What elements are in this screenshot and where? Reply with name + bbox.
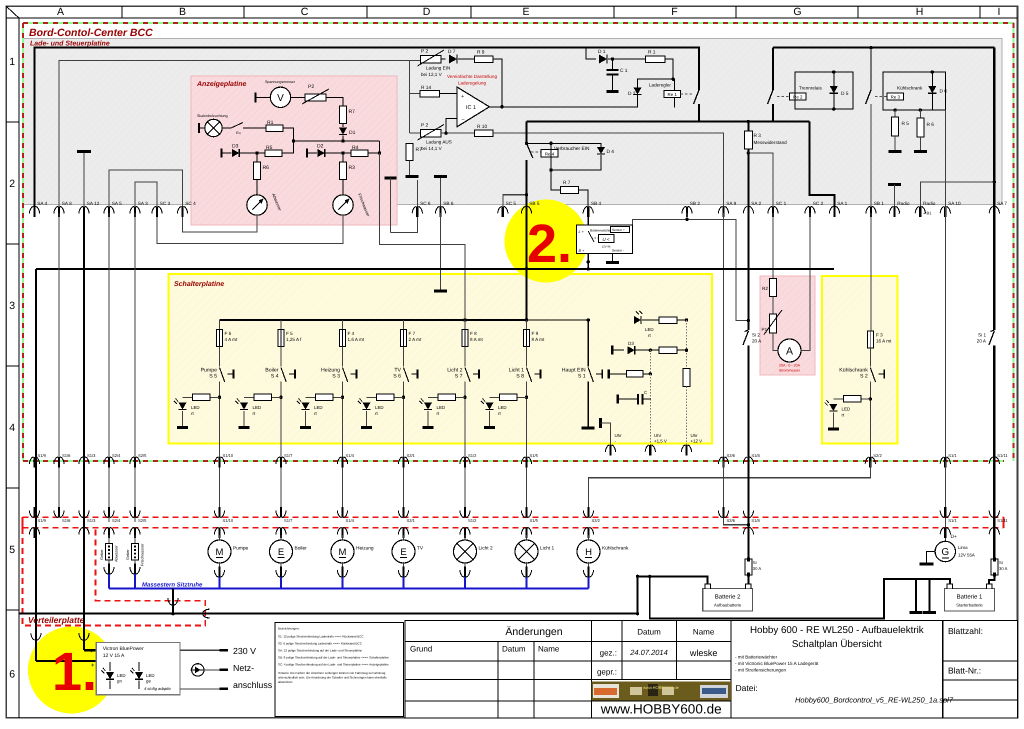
svg-text:D2: D2 [317, 144, 324, 150]
wire Anzeige feed to switch bus [380, 153, 466, 320]
svg-text:1,25 A f: 1,25 A f [286, 337, 302, 342]
wire battery2 minus link [638, 576, 708, 613]
wire bar to SC6 connector [413, 177, 415, 179]
load Boiler [280, 535, 282, 541]
resistor R3 Anzeige vertical [342, 153, 344, 162]
load TV [403, 535, 405, 541]
wire D1 to C1 node [608, 58, 645, 60]
wire Kuehlschrank column [870, 213, 872, 331]
svg-text:4 A mt: 4 A mt [225, 337, 238, 342]
svg-text:+12 V: +12 V [691, 439, 703, 444]
connector below load Licht 1 [526, 562, 528, 570]
svg-text:SB 5: SB 5 [529, 201, 540, 206]
svg-text:ge: ge [146, 679, 151, 684]
svg-text:S 7: S 7 [455, 374, 463, 380]
resistor R5 Anzeige [265, 150, 282, 157]
connector SA 5 at x=109 [108, 207, 110, 218]
svg-text:SA 12: SA 12 [87, 201, 100, 206]
wire thick SB5 column row2 [525, 213, 527, 269]
wire Victron minus lead [84, 649, 96, 651]
wire D2 to R4 [326, 152, 351, 154]
connector S1/11 at green boundary [993, 457, 995, 468]
fuse F 9 8 A mt [526, 320, 528, 330]
op-amp output wire [489, 106, 637, 108]
svg-text:Heizung: Heizung [356, 546, 374, 552]
LED indicator branch TV [367, 396, 404, 398]
battery 1 box [945, 588, 995, 611]
svg-text:S1/4: S1/4 [346, 453, 355, 458]
connector SA 12 at x=84 [83, 207, 85, 218]
svg-text:Re 1: Re 1 [668, 92, 678, 97]
wire Haupt EIN column [587, 320, 589, 367]
pink Anzeigeplatine panel [191, 76, 397, 225]
svg-text:S1/6: S1/6 [62, 518, 71, 523]
svg-text:S1/10: S1/10 [223, 453, 234, 458]
wire R7 to SB4 [579, 190, 589, 213]
svg-text:LED: LED [146, 673, 155, 678]
connector S1/1 at green boundary [944, 457, 946, 468]
svg-text:2.: 2. [527, 214, 572, 274]
switch Kuehlschrank relay [870, 48, 872, 90]
fuse F 7 2 A mt [403, 320, 405, 330]
potentiometer P2 Ladung AUS [409, 126, 411, 133]
connector S1/9 Victron feed [35, 630, 37, 641]
wire R4 to right node [368, 152, 380, 154]
svg-text:Frischwasser: Frischwasser [141, 543, 145, 566]
connector S1/11 at Verteilerplatte corridor [993, 507, 995, 518]
resistor R2 Strommesser [772, 278, 774, 280]
svg-text:Lade- und Steuerplatine: Lade- und Steuerplatine [30, 40, 110, 48]
svg-text:A: A [786, 345, 793, 357]
svg-text:Licht 2: Licht 2 [479, 546, 493, 552]
blue ground stub Licht 1 [526, 577, 528, 588]
svg-text:Abwasser: Abwasser [115, 545, 119, 562]
svg-text:bei 12,1 V: bei 12,1 V [421, 72, 443, 77]
connector SA 1 at x=834.5 [833, 207, 835, 218]
svg-text:S1/3: S1/3 [87, 453, 96, 458]
svg-text:D3: D3 [628, 341, 634, 346]
connector S1/8 at green boundary [747, 457, 749, 468]
blue ground stub Pumpe [219, 577, 221, 588]
svg-text:R 10: R 10 [477, 124, 487, 130]
load Kühlschrank [588, 535, 590, 541]
relay coil box Re 1 [664, 90, 681, 97]
wire P2 to R7 column [326, 97, 343, 106]
red dashed Verteilerplatte lower enclosure [23, 528, 206, 626]
yellow Kuehlschrank switch panel [822, 276, 898, 444]
svg-text:- mit Batteriewächter: - mit Batteriewächter [735, 655, 778, 660]
svg-text:Grund: Grund [410, 645, 432, 654]
diode D3 Anzeige row [220, 149, 222, 158]
connector Radio at x=920.3 [919, 207, 921, 218]
svg-text:1.: 1. [52, 642, 97, 702]
wire R1 down to Laderegler [665, 59, 673, 79]
wire switch to R1 [248, 127, 266, 129]
svg-text:S2: 6 polige Steckverbindung: S2: 6 polige Steckverbindung Ladestrafo … [278, 642, 363, 646]
wire D1 to node row [342, 136, 344, 142]
svg-text:12V 55A: 12V 55A [958, 553, 975, 558]
Laderegler relay rectangle [638, 79, 675, 107]
connector SB 4 at x=588.2 [587, 207, 589, 218]
wire Victron plus lead [36, 660, 96, 662]
connector S1/10 at green boundary [218, 457, 220, 468]
circuit breaker Si 1 20 A [989, 331, 994, 345]
connector SA 4 at x=34.5 [33, 207, 35, 218]
connector SA 2 at x=748.4 [747, 207, 749, 218]
svg-text:Uhr: Uhr [654, 433, 662, 438]
svg-text:LED: LED [253, 405, 262, 410]
svg-text:Kühlschrank: Kühlschrank [602, 546, 629, 552]
relay coil box Re 2 [790, 93, 807, 100]
wire S2/2 column below box [869, 444, 871, 478]
svg-text:Batteriewächter: Batteriewächter [590, 229, 613, 233]
wire SB6 column to bar in row2 [440, 213, 442, 290]
svg-text:D 2: D 2 [628, 91, 636, 97]
fuse F3 16 A mt [867, 331, 873, 348]
generator G Lima [944, 540, 946, 543]
LED indicator branch Licht 2 [428, 396, 465, 398]
svg-text:Lima: Lima [958, 545, 968, 550]
svg-text:S2/4: S2/4 [112, 518, 121, 523]
connector Radio at x=894.5 [893, 207, 895, 218]
svg-text:R4: R4 [352, 145, 359, 151]
svg-text:4 stufig adaptiv: 4 stufig adaptiv [144, 686, 172, 691]
svg-text:C: C [644, 390, 647, 395]
svg-text:LED: LED [191, 405, 200, 410]
wire SA10 column down to S1/1 [944, 110, 946, 213]
svg-text:SC 3: SC 3 [160, 201, 171, 206]
svg-text:SA 4: SA 4 [37, 201, 47, 206]
svg-text:- mit Streifensicherungen: - mit Streifensicherungen [735, 668, 787, 673]
wire thick SB5 lower [525, 195, 527, 213]
wire SC4 to Abwasser meter [183, 213, 258, 232]
yellow Schalterplatine panel [169, 274, 713, 444]
wire thick top right bus [773, 46, 994, 48]
svg-text:IC 1: IC 1 [466, 105, 476, 111]
connector below load Heizung [342, 562, 344, 570]
terminal bar Uhr minus [599, 418, 602, 428]
resistor R1 [266, 125, 283, 132]
wire TV column to connector row [403, 444, 405, 515]
potentiometer P2 Ladung EIN [421, 55, 442, 63]
wire D3 to R5 [240, 152, 265, 154]
wire S2/6 to S1/8 merge lower [724, 461, 749, 525]
svg-text:P 2: P 2 [421, 123, 428, 129]
wire R6 to Abwasser meter [256, 180, 258, 196]
diode D2 Anzeige row [306, 149, 308, 158]
svg-text:LED: LED [437, 405, 446, 410]
wire R14 to op-amp plus [440, 93, 458, 95]
Batteriewaechter box [576, 225, 632, 254]
wire Licht 2 column to connector row [464, 444, 466, 515]
blue ground stub TV [403, 577, 405, 588]
wire S2/5 column [134, 213, 136, 522]
connector S2/5 at green boundary [134, 457, 136, 468]
switch Haupt EIN [588, 368, 593, 383]
svg-text:M: M [216, 547, 224, 558]
wire R9 to output drop [493, 59, 502, 107]
wire Haupt EIN to ground [587, 382, 589, 428]
dashed link Re4 [531, 151, 541, 153]
svg-text:Uhr: Uhr [691, 433, 699, 438]
svg-text:S1/8: S1/8 [751, 518, 760, 523]
wire SA9/S2-6 column row2-5 [723, 213, 725, 514]
svg-text:SC 4: SC 4 [185, 201, 196, 206]
svg-text:D1: D1 [349, 130, 356, 136]
Geber Abwasser sensor [108, 535, 110, 543]
svg-text:20 A: 20 A [977, 339, 987, 344]
resistor R1 [645, 56, 665, 63]
load Licht 2 [464, 535, 466, 541]
blue stub Geber Abwasser [108, 574, 110, 588]
relay coil box Re 3 [887, 93, 904, 100]
connector SA 10 at x=945.3 [944, 207, 946, 218]
svg-text:S 2: S 2 [860, 374, 868, 380]
crossing hop at Verteilerplatte dashed edge [203, 609, 210, 618]
connector S1/4 at green boundary [341, 457, 343, 468]
svg-text:Si 2: Si 2 [752, 333, 760, 338]
svg-text:F 9: F 9 [532, 331, 539, 336]
svg-text:SB: 8 polige Steckverbindung: SB: 8 polige Steckverbindung auf der Lad… [278, 656, 389, 660]
svg-text:+: + [461, 94, 464, 100]
svg-text:D+: D+ [951, 534, 957, 540]
svg-text:E: E [400, 547, 406, 558]
svg-text:S1/5: S1/5 [530, 453, 539, 458]
svg-text:30 A: 30 A [999, 566, 1008, 571]
resistor R5 pullup [893, 108, 896, 111]
connector S1/8 at Verteilerplatte corridor [747, 507, 749, 518]
svg-text:Sensor -: Sensor - [612, 249, 624, 253]
wire R2 to P1 [772, 297, 774, 315]
switch Skalenbeleuchtung [231, 123, 243, 129]
svg-text:LED: LED [314, 405, 323, 410]
connector S1/1 at Verteilerplatte corridor [944, 507, 946, 518]
svg-text:SA 3: SA 3 [138, 201, 148, 206]
wire R5 right to mid node [282, 141, 294, 153]
wire R3 down to SA2 [747, 149, 749, 213]
svg-text:4: 4 [9, 422, 15, 434]
svg-text:Kühlschrank: Kühlschrank [897, 86, 923, 91]
diode D2 Laderegler [634, 88, 642, 95]
svg-text:S2/4: S2/4 [112, 453, 121, 458]
load Pumpe [219, 535, 221, 541]
LED indicator branch Pumpe [183, 396, 220, 398]
connector S2/4 at green boundary [108, 457, 110, 468]
ground bar chassis 2 [929, 579, 931, 612]
capacitor C Haupt [617, 395, 619, 404]
dashed link Re1 to switch [681, 93, 694, 95]
svg-text:SB 1: SB 1 [874, 201, 885, 206]
svg-text:Datei:: Datei: [736, 683, 758, 693]
svg-text:S1/3: S1/3 [87, 518, 96, 523]
svg-text:Spannungsmesser: Spannungsmesser [265, 80, 296, 84]
fuse F 6 4 A mt [219, 320, 221, 330]
svg-text:F 5: F 5 [286, 331, 293, 336]
svg-text:Licht 1: Licht 1 [540, 546, 554, 552]
svg-text:SB 2: SB 2 [690, 201, 701, 206]
svg-text:Massestern Sitztruhe: Massestern Sitztruhe [142, 582, 203, 589]
svg-text:unterschiedlich sein. Die Anor: unterschiedlich sein. Die Anordnung der … [278, 676, 387, 680]
connector S1/3 at green boundary [83, 457, 85, 468]
resistor R4 [351, 150, 368, 157]
fuse F 8 8 A mt [464, 320, 466, 330]
svg-text:F 6: F 6 [225, 331, 232, 336]
svg-text:24.07.2014: 24.07.2014 [629, 648, 668, 657]
connector S2/2 at green boundary [869, 457, 871, 468]
svg-text:Messwiderstand: Messwiderstand [754, 140, 788, 145]
svg-text:Ein: Ein [236, 131, 241, 135]
wire P1 to ammeter [773, 333, 778, 351]
wire SC6 link [391, 213, 418, 233]
ground bar chassis 1 [915, 579, 917, 612]
svg-text:−: − [462, 117, 465, 123]
wire R3 branch to SC1 [748, 153, 773, 213]
wire rail left op-amp area [410, 61, 421, 127]
svg-text:SA 7: SA 7 [997, 201, 1007, 206]
svg-text:Si: Si [999, 560, 1003, 565]
svg-text:Sensor +: Sensor + [612, 228, 625, 232]
svg-text:S2/1: S2/1 [407, 518, 416, 523]
LED ge inside Victron [135, 672, 143, 679]
switch Boiler S 4 [280, 347, 282, 367]
Kuehlschrank relay rectangle [883, 72, 945, 110]
connector S1/2 at green boundary [464, 457, 466, 468]
connector S1/2 at Verteilerplatte corridor [464, 507, 466, 518]
svg-text:D 1: D 1 [598, 49, 606, 55]
svg-text:Name: Name [693, 628, 715, 637]
svg-text:Hobby600_Bordcontrol_v5_RE-WL2: Hobby600_Bordcontrol_v5_RE-WL250_1a.spl7 [795, 696, 954, 705]
wire SB4 column to Batteriewaechter [587, 213, 589, 269]
title block frame [405, 621, 1018, 718]
Trennrelais relay rectangle [795, 72, 853, 109]
svg-text:F 3: F 3 [876, 333, 883, 338]
connector S1/10 at Verteilerplatte corridor [218, 507, 220, 518]
wire SA12 stub with terminal bar [83, 152, 85, 213]
switch Heizung S 3 [342, 347, 344, 367]
svg-text:S 3: S 3 [332, 374, 340, 380]
svg-text:SA 5: SA 5 [112, 201, 122, 206]
switch Pumpe S 5 [219, 347, 221, 367]
wire R7 to ground bar [409, 160, 411, 176]
resistor R7 Anzeige [340, 106, 347, 124]
diode D5 [830, 86, 838, 93]
connector below load Licht 2 [464, 562, 466, 570]
wire thick SA1 drop [810, 122, 835, 214]
wire Pumpe column to LED junction [219, 382, 221, 444]
svg-text:R 3: R 3 [754, 133, 762, 139]
wire thick S1/8 battery column [747, 461, 749, 559]
svg-text:SB 6: SB 6 [443, 201, 454, 206]
terminal bar Radio minus [888, 183, 901, 186]
svg-text:C 1: C 1 [620, 68, 628, 74]
wire fuse to battery1 plus [989, 575, 994, 584]
wire thick right top segment [772, 104, 774, 122]
svg-text:Uhr: Uhr [615, 433, 623, 438]
svg-text:S 6: S 6 [393, 374, 401, 380]
wire D7 to R9 [458, 58, 475, 60]
LED gn inside Victron [106, 672, 114, 679]
svg-text:S1/1: S1/1 [948, 518, 957, 523]
switch Verbraucher EIN [527, 143, 533, 158]
sensor plus box [611, 227, 630, 233]
wire tap from top bus to D1 [586, 48, 596, 59]
svg-text:SA 1: SA 1 [837, 201, 847, 206]
connector S1/7 at Verteilerplatte corridor [280, 507, 282, 518]
svg-text:gez.:: gez.: [600, 649, 617, 658]
svg-text:S1/9: S1/9 [38, 453, 47, 458]
resistor R10 [475, 130, 494, 137]
switch inside Batteriewaechter [588, 231, 594, 242]
LED Haupt EIN inline [634, 316, 641, 324]
wire 230V top lead [180, 649, 220, 651]
svg-text:3: 3 [9, 300, 15, 312]
ground bar left rail [406, 175, 419, 178]
svg-text:F 4: F 4 [348, 331, 355, 336]
ammeter A circle [778, 339, 801, 362]
svg-text:R5: R5 [266, 145, 273, 151]
svg-text:S1/4: S1/4 [346, 518, 355, 523]
svg-text:R 9: R 9 [477, 50, 485, 56]
svg-text:SC 6: SC 6 [420, 201, 431, 206]
svg-text:U <: U < [602, 237, 610, 242]
svg-text:R 6: R 6 [927, 122, 935, 128]
wire S1/1 column lower [944, 461, 946, 541]
svg-text:D: D [423, 6, 431, 18]
potentiometer P1 [770, 314, 777, 333]
blue stub Geber Frischwasser [134, 574, 136, 588]
wire lamp [199, 127, 205, 129]
svg-text:R 5: R 5 [902, 121, 910, 127]
wire Radio plus B1 [920, 182, 994, 213]
diode D7 [449, 55, 457, 64]
svg-text:S2/6: S2/6 [727, 453, 736, 458]
capacitor C1 [612, 59, 614, 70]
svg-text:E: E [278, 547, 284, 558]
blue ground stub Heizung [342, 577, 344, 588]
svg-text:LED: LED [645, 327, 654, 332]
terminal bar lamp [198, 123, 200, 133]
svg-text:SC 1: SC 1 [776, 201, 787, 206]
diode D1 [599, 55, 607, 64]
svg-text:F 7: F 7 [409, 331, 416, 336]
blue ground stub Kühlschrank [588, 577, 590, 588]
svg-text:R2: R2 [762, 286, 768, 291]
svg-text:6: 6 [9, 668, 15, 680]
svg-text:R1: R1 [267, 120, 274, 126]
svg-text:Pumpe: Pumpe [233, 546, 249, 552]
blue ground stub Licht 2 [464, 577, 466, 588]
svg-text:Boiler: Boiler [295, 546, 308, 552]
wire S1/3 column [83, 213, 85, 522]
fuse F 4 1,6 A mt [342, 320, 344, 330]
svg-text:Änderungen: Änderungen [505, 626, 562, 638]
svg-text:LED: LED [375, 405, 384, 410]
svg-text:+ B1: + B1 [923, 211, 932, 216]
svg-text:Si 1: Si 1 [978, 333, 986, 338]
svg-text:R 7: R 7 [563, 180, 571, 186]
svg-text:230 V: 230 V [233, 646, 256, 656]
svg-text:Aufbaubatterie: Aufbaubatterie [714, 603, 742, 608]
corner diagonal [6, 6, 19, 18]
connector SA 9 at x=723.5 [722, 207, 724, 218]
blue ground stub Boiler [280, 577, 282, 588]
red dashed corridor left end [22, 517, 24, 528]
diode D3 Haupt row [611, 346, 613, 355]
fuse Si 30A battery1 [991, 559, 998, 575]
svg-text:Re 4: Re 4 [545, 151, 555, 156]
ground bar Batteriewaechter [612, 254, 614, 262]
red dashed Verteilerplatte corridor bottom line [23, 527, 1004, 529]
